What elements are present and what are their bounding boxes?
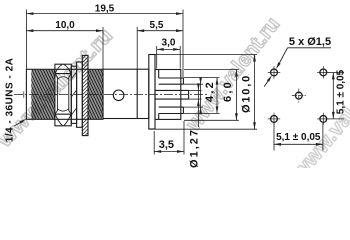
svg-text:Ø10,0: Ø10,0 bbox=[240, 74, 252, 113]
svg-text:Ø1,27: Ø1,27 bbox=[188, 128, 200, 168]
hex nut bbox=[55, 64, 71, 126]
svg-text:5,1 ± 0,05: 5,1 ± 0,05 bbox=[276, 132, 321, 143]
thread label leader bbox=[14, 122, 21, 126]
dim 5.5 bbox=[136, 27, 138, 69]
dim 19.5 bbox=[25, 10, 27, 70]
svg-text:5 x Ø1,5: 5 x Ø1,5 bbox=[289, 36, 331, 48]
thread hatch left bbox=[18, 70, 67, 119]
footprint hole top-right bbox=[320, 69, 327, 76]
svg-text:3,5: 3,5 bbox=[159, 139, 174, 151]
svg-text:1/4 - 36UNS - 2A: 1/4 - 36UNS - 2A bbox=[4, 58, 15, 143]
svg-text:19,5: 19,5 bbox=[95, 4, 115, 15]
dim 6.0 bbox=[184, 69, 239, 71]
flat washer bbox=[77, 62, 83, 127]
footprint center hole bbox=[295, 92, 302, 99]
footprint right dim bbox=[328, 71, 345, 73]
svg-text:5,1 ± 0,05: 5,1 ± 0,05 bbox=[335, 69, 346, 114]
inner legs dim arrows line bbox=[200, 79, 202, 113]
body step line bbox=[136, 69, 138, 118]
10.0 arrows bbox=[26, 29, 33, 32]
5.1 bottom arrows bbox=[274, 143, 281, 146]
panel plate (hatched) bbox=[82, 55, 88, 135]
footprint label leader bbox=[288, 47, 332, 49]
phi1.27 arrows bbox=[197, 83, 200, 90]
footprint hole bottom-left bbox=[271, 116, 278, 123]
3.0 arrows bbox=[157, 48, 164, 51]
threaded barrel outline bbox=[26, 69, 103, 119]
5.5 arrows bbox=[137, 29, 144, 32]
solder hole circle bbox=[113, 90, 124, 101]
svg-text:5,5: 5,5 bbox=[150, 20, 164, 31]
center tick bbox=[23, 91, 25, 97]
footprint leader arrows bbox=[276, 62, 281, 69]
dim phi 10.0 bbox=[151, 54, 258, 56]
svg-text:4,2: 4,2 bbox=[204, 80, 216, 102]
arrowheads bbox=[20, 12, 335, 153]
pin extension lines bbox=[189, 89, 202, 91]
center pin bbox=[155, 89, 189, 91]
lock washer bbox=[71, 66, 76, 123]
footprint bottom dim bbox=[273, 123, 275, 151]
thread leader arrow bbox=[20, 119, 27, 124]
rear box bbox=[155, 70, 181, 120]
phi10 arrows bbox=[253, 55, 256, 62]
svg-text:www.valent.ru: www.valent.ru bbox=[181, 13, 284, 136]
svg-text:3,0: 3,0 bbox=[162, 38, 176, 49]
dim phi 1.27 line bbox=[197, 84, 199, 127]
svg-text:6,0: 6,0 bbox=[222, 80, 234, 102]
svg-text:10,0: 10,0 bbox=[55, 20, 75, 31]
dim 3.5 bbox=[153, 131, 155, 155]
4.2 arrows bbox=[216, 78, 219, 85]
dim 4.2 bbox=[183, 77, 219, 79]
dim 10.0 bbox=[102, 27, 104, 69]
thread hatch right bbox=[75, 70, 115, 119]
footprint hole top-left bbox=[271, 69, 278, 76]
inner legs arrows bbox=[199, 77, 202, 84]
3.5 arrows bbox=[154, 150, 161, 153]
19.5 arrows bbox=[26, 12, 33, 15]
main body bbox=[103, 69, 149, 118]
hole cross marks bbox=[268, 66, 330, 125]
dim 3.0 bbox=[156, 46, 158, 69]
centerline main axis bbox=[14, 94, 207, 96]
bottom leg bbox=[159, 106, 184, 108]
6.0 arrows bbox=[235, 70, 238, 77]
dimension texts bbox=[4, 4, 346, 168]
5.1 right arrows bbox=[332, 72, 335, 79]
footprint hole bottom-right bbox=[320, 116, 327, 123]
top leg bbox=[159, 77, 184, 79]
flange bbox=[149, 55, 155, 130]
